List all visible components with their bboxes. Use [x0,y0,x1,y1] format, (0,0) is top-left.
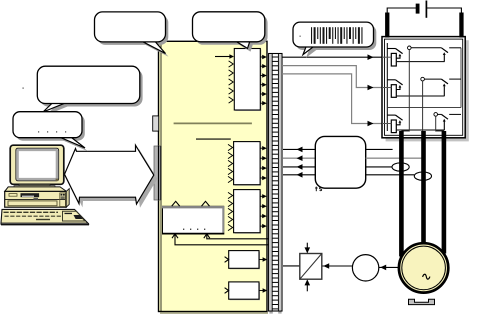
label ts [315,187,322,192]
wire PWM phase 3 [282,74,391,126]
chip U3 [234,190,262,234]
chip U2 [234,142,262,186]
phase bar C [442,131,447,254]
board edge tab [153,116,159,131]
stage 2 top wire [424,78,441,80]
callout 5 (lower left) [13,112,88,152]
battery plate long [425,1,427,18]
wire to converter [283,265,300,267]
computer: monitor [10,145,64,184]
callout 2 (top middle) [193,12,268,52]
node 3 [434,113,438,117]
node 2 [421,77,425,81]
wire PWM phase 2 [282,66,391,91]
box U6 [229,282,260,300]
switch Q3b [441,114,448,130]
switch Q1b [441,48,448,62]
converter bottom arrow [305,279,311,291]
wire encoder to converter [322,263,352,269]
controller board [159,41,269,313]
bottom bus wire [387,107,461,109]
bus divider line [174,122,252,124]
stage 1 top wire [411,47,441,49]
U2 left bus chevrons [228,144,233,182]
phase line B inside [422,81,424,132]
connector strip [269,54,282,314]
input wire R2 [382,87,391,89]
U1 left bus chevrons [229,61,234,103]
U6 input arrow [225,288,229,294]
DC bus bar right [459,13,463,38]
sense wire 4 [366,174,415,176]
board socket [154,146,161,200]
motor base [409,299,435,304]
short black line [196,138,231,140]
gate resistor R1 [391,53,396,66]
switch Q1a [387,49,402,59]
wire motor to encoder [379,265,399,271]
current sensor CT2 [414,172,431,180]
switch Q3a [387,115,402,125]
computer: system unit front [5,189,70,208]
feedback wire 2 [283,155,315,161]
callout 4 (mid left) [23,66,143,115]
U2 output arrows [260,146,267,180]
feedback wire 4 [283,172,315,178]
wire arrow into U1 [215,54,234,58]
sense wire 2 [366,157,422,159]
input wire R3 [382,123,391,125]
wire CPU to connector (upper) [207,235,269,239]
CPU box U4 [162,206,224,234]
converter top arrow [305,243,311,254]
gate resistor R2 [391,85,396,98]
phase line C inside [436,116,444,131]
wire PWM phase 1 [282,54,391,60]
signal conditioning box [315,136,365,188]
gate resistor R3 [391,120,396,133]
motor M [399,243,448,292]
stage 2 top wire right [449,78,461,80]
node 1 [408,46,412,50]
U5 input arrow [225,257,229,263]
computer: keyboard [1,209,89,224]
U3 output arrows [260,194,267,228]
U1 output arrows [260,55,266,106]
DC bus bar left [385,13,389,38]
stage 1 top wire right [449,47,461,49]
computer: monitor stand [14,185,55,188]
stage 3 mid wire [397,129,445,131]
current sensor CT1 [392,163,409,171]
encoder E [352,255,378,281]
feedback wire 1 [283,147,315,153]
callout 1 (top left) [95,12,169,57]
U5 output arrow [259,257,267,261]
computer: system unit top [5,187,67,192]
callout 3 (PWM barcode) [293,22,376,58]
chip U1 [234,49,261,112]
phase line A inside [401,50,409,131]
sense wire 3 [366,166,393,168]
box U5 [229,251,260,270]
phase bar A [399,131,404,257]
inverter box [382,37,465,138]
DC rail left [386,43,388,131]
CPU top carets [172,201,210,206]
converter box [300,254,322,280]
stage 3 top wire [438,113,442,115]
U6 output arrow [259,288,267,292]
stage 1 mid wire [397,61,445,63]
stage 3 top wire right [449,113,461,115]
input wire R1 [382,56,391,58]
switch Q2b [441,79,448,96]
DC rail right [460,48,462,108]
battery plate short [416,4,420,14]
sense wire 1 [366,148,393,150]
wire CPU to connector (lower) [175,235,269,245]
stage 2 mid wire [397,95,445,97]
inverter shadow [386,40,469,141]
switch Q2a [387,80,402,90]
arrow shadow [68,149,157,208]
phase bar B [421,131,426,243]
feedback wire 3 [283,164,315,170]
CPU bottom input arrows [172,234,210,238]
battery wiring [387,8,461,13]
U3 left bus chevrons [228,192,233,230]
bus double arrow [65,145,154,204]
